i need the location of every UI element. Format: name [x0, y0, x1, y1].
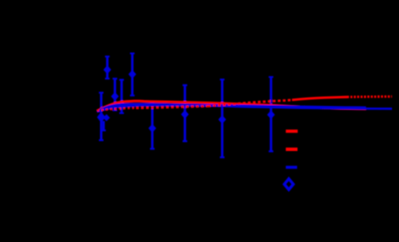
legend entry 4 blue open diamond marker [284, 179, 293, 190]
data point A error bar [106, 57, 108, 79]
data point D error bar [120, 80, 122, 113]
blue solid fit curve [97, 104, 366, 112]
data point B error bar [131, 53, 133, 95]
red dashed curve segment 2 (steeper mid rise) [208, 100, 292, 106]
data point E2 cap [101, 129, 105, 131]
data point H caps [220, 80, 225, 158]
blue dashed fit curve (nearly overlapping, lower) [97, 105, 392, 112]
red dashed curve segment 4 (right tail) [347, 95, 392, 98]
red dashed curve segment 1b (flat mid) [136, 106, 208, 108]
legend entry 3 blue line sample [286, 166, 297, 169]
data point E error bar [100, 93, 102, 141]
data point I diamond [267, 110, 275, 119]
data point E caps [99, 93, 104, 141]
data point C error bar [114, 79, 116, 111]
data point D diamond [118, 100, 126, 109]
data point A caps [105, 57, 110, 79]
data point D caps [119, 80, 124, 113]
data point G diamond [181, 110, 189, 119]
data point C caps [113, 79, 118, 111]
legend entry 1 red line sample [286, 130, 298, 133]
data point E diamond [97, 112, 105, 123]
data point F error bar [151, 103, 153, 149]
data point I caps [269, 77, 274, 151]
data point A diamond [103, 65, 111, 74]
data point B diamond [128, 70, 136, 79]
data point H diamond [218, 115, 226, 124]
data point G caps [183, 85, 188, 141]
red solid fit curve [97, 101, 366, 111]
data point I error bar [270, 77, 272, 151]
data point E2 error bar stub [102, 121, 104, 130]
red dashed curve segment 1 (slowly rising, left) [97, 108, 136, 111]
red dashed curve segment 3 (merged solid stretch) [292, 97, 347, 100]
data point H error bar [221, 80, 223, 158]
data point F caps [150, 103, 155, 149]
data point B caps [130, 53, 135, 95]
data point F diamond [148, 124, 156, 133]
data point G error bar [184, 85, 186, 141]
data point E3 diamond [103, 114, 110, 121]
legend entry 2 red line sample [286, 148, 298, 151]
data point C diamond [111, 92, 119, 101]
